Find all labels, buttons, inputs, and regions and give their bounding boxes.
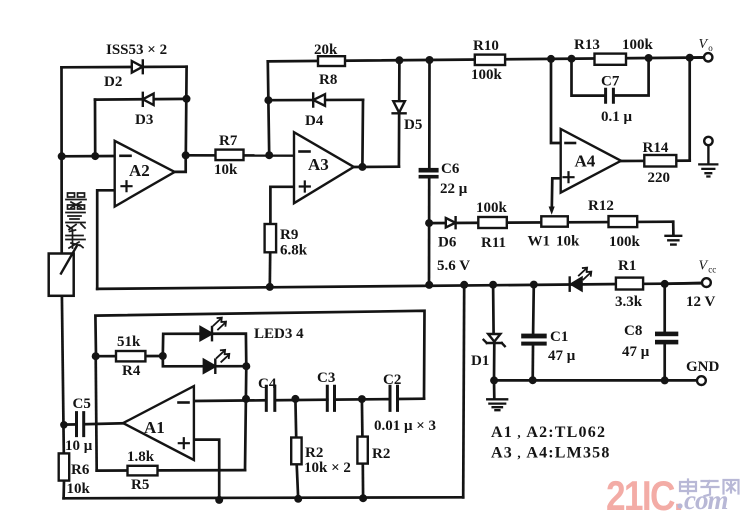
potentiometer W1 wiper arrow	[549, 207, 555, 215]
wire bottom rail	[64, 497, 464, 498]
svg-text:5.6 V: 5.6 V	[437, 258, 470, 274]
capacitor C3 plates	[327, 386, 334, 410]
wire C5 output line	[63, 423, 76, 426]
node LED to inv line	[242, 395, 250, 403]
capacitor C7 plates	[606, 89, 614, 102]
wire A4 non-inverting input	[552, 178, 561, 208]
capacitor C1 plates	[521, 334, 547, 339]
wire C4 to C3 segment	[275, 398, 327, 401]
wire W1 row	[429, 222, 673, 223]
svg-text:A2: A2	[129, 161, 150, 180]
svg-text:V: V	[699, 259, 709, 274]
svg-text:ISS53 × 2: ISS53 × 2	[106, 42, 167, 58]
svg-text:0.01 μ × 3: 0.01 μ × 3	[374, 418, 436, 434]
resistor R2 second	[357, 437, 367, 464]
wire D5 vertical	[398, 60, 401, 166]
wire ground return bottom right	[493, 379, 697, 382]
svg-text:51k: 51k	[117, 334, 141, 350]
wire D1 upper vertical	[492, 285, 495, 335]
wire R4 horizontal	[96, 355, 163, 358]
ground symbol top right	[699, 164, 717, 176]
diode D3	[143, 93, 154, 106]
terminal GND	[697, 376, 706, 385]
wire A2 inverting input	[62, 155, 115, 158]
wire far-left vertical bottom	[62, 296, 64, 453]
node C6 top	[426, 56, 434, 64]
wire R2a vertical top	[294, 399, 298, 438]
svg-text:R5: R5	[131, 477, 149, 493]
wire C8 upper vertical	[663, 284, 666, 332]
wire R12 ground stub	[672, 222, 675, 235]
svg-text:D5: D5	[404, 117, 422, 133]
wire D4 horizontal	[268, 98, 363, 101]
sensor diagonal	[61, 247, 77, 274]
svg-text:o: o	[708, 43, 713, 53]
node C4 C3 join	[291, 395, 299, 403]
op-amp A2 minus sign	[121, 155, 131, 158]
svg-text:A1 , A2:TL062: A1 , A2:TL062	[491, 424, 606, 441]
svg-text:C6: C6	[441, 161, 460, 177]
resistor R8	[318, 56, 345, 66]
resistor R6	[59, 453, 69, 480]
wire D2 top loop	[62, 65, 187, 68]
wire C1 lower vertical	[531, 346, 534, 380]
wire Vcc terminal stub	[665, 283, 702, 284]
svg-text:47 μ: 47 μ	[548, 348, 576, 364]
op-amp A4 minus sign	[566, 142, 576, 145]
svg-text:21IC.: 21IC.	[606, 473, 682, 520]
wire C1 upper vertical	[532, 285, 535, 334]
svg-text:100k: 100k	[622, 37, 654, 53]
svg-text:0.1 μ: 0.1 μ	[601, 109, 633, 125]
terminal Vcc	[702, 278, 711, 287]
svg-text:W1: W1	[528, 234, 551, 250]
diode D5	[393, 101, 406, 113]
wire LED upper branch	[163, 334, 247, 367]
svg-text:D6: D6	[438, 235, 457, 251]
op-amp A4 plus sign	[564, 172, 574, 182]
node R2b bottom	[359, 494, 367, 502]
node R4 left	[92, 352, 100, 360]
wire oscillator block top	[95, 311, 424, 399]
wire R9 bottom	[268, 252, 271, 287]
wire R14 right vertical to Vo	[688, 58, 691, 161]
op-amp A4	[561, 129, 621, 193]
hanzi chuan (传) approx	[66, 230, 85, 248]
svg-text:100k: 100k	[471, 67, 503, 83]
svg-text:C4: C4	[258, 376, 277, 392]
diode D2	[132, 60, 143, 73]
wire D3 horizontal	[95, 98, 186, 101]
svg-text:10 μ: 10 μ	[65, 438, 93, 454]
node C8 rail	[661, 280, 669, 288]
resistor R1	[616, 278, 643, 290]
svg-text:R13: R13	[574, 37, 600, 53]
wire D1 lower vertical	[493, 343, 496, 380]
svg-text:10k × 2: 10k × 2	[304, 460, 351, 476]
op-amp A1 minus sign	[179, 401, 189, 404]
LED3 arrows	[214, 318, 227, 330]
wire A4 inverting input	[551, 59, 561, 143]
sensor box	[49, 254, 74, 296]
resistor R4	[116, 351, 145, 361]
svg-text:C8: C8	[624, 323, 642, 339]
svg-text:A3 , A4:LM358: A3 , A4:LM358	[491, 445, 611, 462]
hanzi gan (感) approx	[66, 213, 85, 230]
wire R2b vertical top	[361, 399, 364, 437]
wire jack to ground	[707, 145, 709, 163]
terminal Vo	[704, 53, 712, 61]
svg-text:C1: C1	[550, 329, 568, 345]
svg-text:R7: R7	[219, 133, 238, 149]
wire D2 loop right vertical	[184, 67, 188, 156]
node A2 inv left	[58, 152, 66, 160]
svg-text:20k: 20k	[314, 42, 338, 58]
svg-text:D4: D4	[305, 113, 324, 129]
wire C7 loop right	[614, 58, 648, 96]
node C7 left top	[568, 55, 576, 63]
node R2a bottom	[294, 495, 302, 503]
svg-text:12 V: 12 V	[686, 294, 715, 310]
op-amp A2 plus sign	[122, 181, 132, 191]
svg-text:R14: R14	[643, 140, 669, 156]
wire C6 upper vertical	[428, 60, 431, 168]
op-amp A1 plus sign	[179, 438, 189, 448]
terminal output ground jack	[704, 137, 712, 145]
svg-text:R11: R11	[481, 235, 506, 251]
svg-text:A1: A1	[144, 418, 165, 437]
sensor label chinese (drawn strokes)	[66, 193, 86, 248]
wire C7 loop left	[572, 59, 605, 96]
zener diode D1	[484, 334, 505, 346]
wire LED junction down vertical	[245, 366, 246, 470]
svg-text:R9: R9	[280, 227, 298, 243]
svg-text:R2: R2	[305, 445, 323, 461]
capacitor C5 plates	[77, 413, 84, 436]
wire R14 output line	[621, 159, 690, 162]
op-amp A3 minus sign	[300, 150, 310, 153]
wire mid bias rail	[97, 283, 702, 289]
svg-text:LED3 4: LED3 4	[254, 326, 304, 342]
resistor R2 first	[291, 438, 301, 465]
svg-text:3.3k: 3.3k	[615, 294, 643, 310]
svg-text:C5: C5	[73, 396, 91, 412]
capacitor C2 plates	[390, 386, 398, 410]
node D1 rail	[489, 281, 497, 289]
svg-text:10k: 10k	[214, 162, 238, 178]
wire A1 non-inverting route	[194, 440, 219, 500]
wire R5 horizontal	[97, 469, 245, 472]
watermark dianziwang strokes	[680, 480, 739, 497]
ground symbol under D1	[487, 399, 507, 410]
wire oscillator block left vertical	[96, 356, 97, 470]
op-amp A3 plus sign	[300, 182, 310, 192]
wire C6 lower vertical	[428, 178, 431, 285]
watermark 21IC logo	[606, 473, 739, 520]
wire C8 lower vertical	[663, 345, 666, 380]
wire D3 left vertical	[94, 100, 97, 157]
node C3 C2 join	[358, 395, 366, 403]
resistor R9	[265, 224, 277, 252]
svg-text:220: 220	[648, 170, 671, 186]
node D4 left	[264, 96, 272, 104]
svg-text:6.8k: 6.8k	[280, 243, 308, 259]
resistor R14	[644, 155, 676, 167]
svg-text:R6: R6	[71, 462, 90, 478]
capacitor C8 plates	[655, 332, 678, 337]
svg-text:D2: D2	[104, 74, 122, 90]
node A1 plus bottom	[215, 496, 223, 504]
svg-text:D3: D3	[135, 112, 153, 128]
wire top main rail	[268, 58, 702, 62]
svg-text:1.8k: 1.8k	[127, 449, 155, 465]
wire D4 right vertical	[361, 100, 364, 167]
svg-text:47 μ: 47 μ	[622, 344, 650, 360]
node D3 to inv	[91, 152, 99, 160]
capacitor C4 plates	[266, 386, 275, 410]
node LED join	[242, 362, 250, 370]
resistor R13	[595, 54, 627, 65]
svg-text:A4: A4	[575, 152, 596, 171]
node C6 mid	[425, 219, 433, 227]
node R7 to A3	[265, 151, 273, 159]
resistor R5	[128, 466, 158, 476]
wire far-left vertical top	[60, 67, 63, 253]
svg-text:10k: 10k	[67, 481, 91, 497]
wire R2b vertical bottom	[361, 464, 364, 499]
wire R2a vertical bottom	[297, 464, 299, 499]
svg-text:100k: 100k	[476, 200, 508, 216]
svg-text:22 μ: 22 μ	[440, 181, 468, 197]
svg-text:R12: R12	[588, 198, 614, 214]
watermark dot before com	[677, 503, 682, 508]
wire A3 non-inverting input	[270, 187, 294, 224]
node R4 right LED	[159, 352, 167, 360]
op-amp A2	[115, 141, 175, 207]
wire LED lower branch	[163, 356, 247, 366]
hanzi qi (器) approx	[66, 193, 86, 209]
svg-text:C3: C3	[317, 370, 335, 386]
potentiometer W1 body	[541, 216, 568, 226]
svg-text:C2: C2	[383, 372, 401, 388]
power LED	[571, 278, 581, 290]
LED3 upper	[201, 327, 212, 340]
node A2 output	[182, 151, 190, 159]
resistor R7	[216, 150, 244, 161]
wire R8 loop left vertical	[268, 61, 269, 155]
resistor R11	[478, 217, 507, 228]
wire D1 ground stub	[493, 380, 496, 398]
svg-text:V: V	[699, 37, 709, 52]
svg-text:C7: C7	[601, 74, 620, 90]
node C1 rail	[530, 281, 538, 289]
svg-text:R2: R2	[372, 446, 390, 462]
node right vertical rail	[460, 281, 468, 289]
svg-text:D1: D1	[471, 353, 489, 369]
op-amp A3	[294, 132, 354, 203]
op-amp A1 (points left)	[123, 386, 194, 460]
node C5 tap	[60, 421, 68, 429]
node Vo branch	[686, 54, 694, 62]
node D5 top	[395, 56, 403, 64]
svg-text:cc: cc	[708, 265, 716, 275]
svg-text:R1: R1	[618, 258, 636, 274]
svg-text:10k: 10k	[556, 234, 580, 250]
resistor R10	[475, 55, 505, 65]
svg-text:R8: R8	[319, 72, 337, 88]
wire R6 bottom stub	[62, 481, 65, 499]
ground symbol under R12	[666, 236, 682, 245]
LED4 lower	[204, 360, 215, 373]
wire Vo terminal stub	[690, 56, 704, 59]
svg-text:R10: R10	[473, 38, 499, 54]
node C7 right top	[645, 54, 653, 62]
svg-text:com: com	[684, 485, 728, 515]
node C1 gnd wire	[529, 376, 537, 384]
diode D4	[313, 93, 325, 106]
wire C3 to C2 segment	[335, 398, 390, 401]
node D1 gnd wire	[490, 376, 498, 384]
resistor R12	[609, 216, 638, 227]
wire A1 inverting line with C4 C3 C2	[194, 399, 266, 402]
svg-text:R4: R4	[122, 363, 141, 379]
wire A3 output	[354, 165, 399, 168]
svg-text:GND: GND	[686, 359, 720, 375]
wire A2 non-inverting input	[97, 190, 115, 289]
wire C5 to A1 segment	[84, 422, 123, 426]
svg-text:100k: 100k	[609, 234, 641, 250]
svg-text:A3: A3	[308, 155, 329, 174]
node A3 output	[358, 163, 366, 171]
node D3 junction	[183, 95, 191, 103]
LED4 arrows	[217, 350, 230, 362]
wire C2 to corner segment	[398, 397, 424, 400]
wire R7 line A2 to A3	[186, 154, 294, 157]
node R9 bottom rail	[266, 283, 274, 291]
node A4 inv top	[547, 55, 555, 63]
power LED arrows	[579, 268, 592, 280]
capacitor C6 plates	[419, 168, 439, 173]
node C6 bottom rail	[425, 281, 433, 289]
diode D6	[446, 217, 456, 228]
wire right mid vertical	[463, 285, 464, 498]
wire A2 output stub	[175, 155, 186, 172]
node C8 gnd wire	[661, 376, 669, 384]
